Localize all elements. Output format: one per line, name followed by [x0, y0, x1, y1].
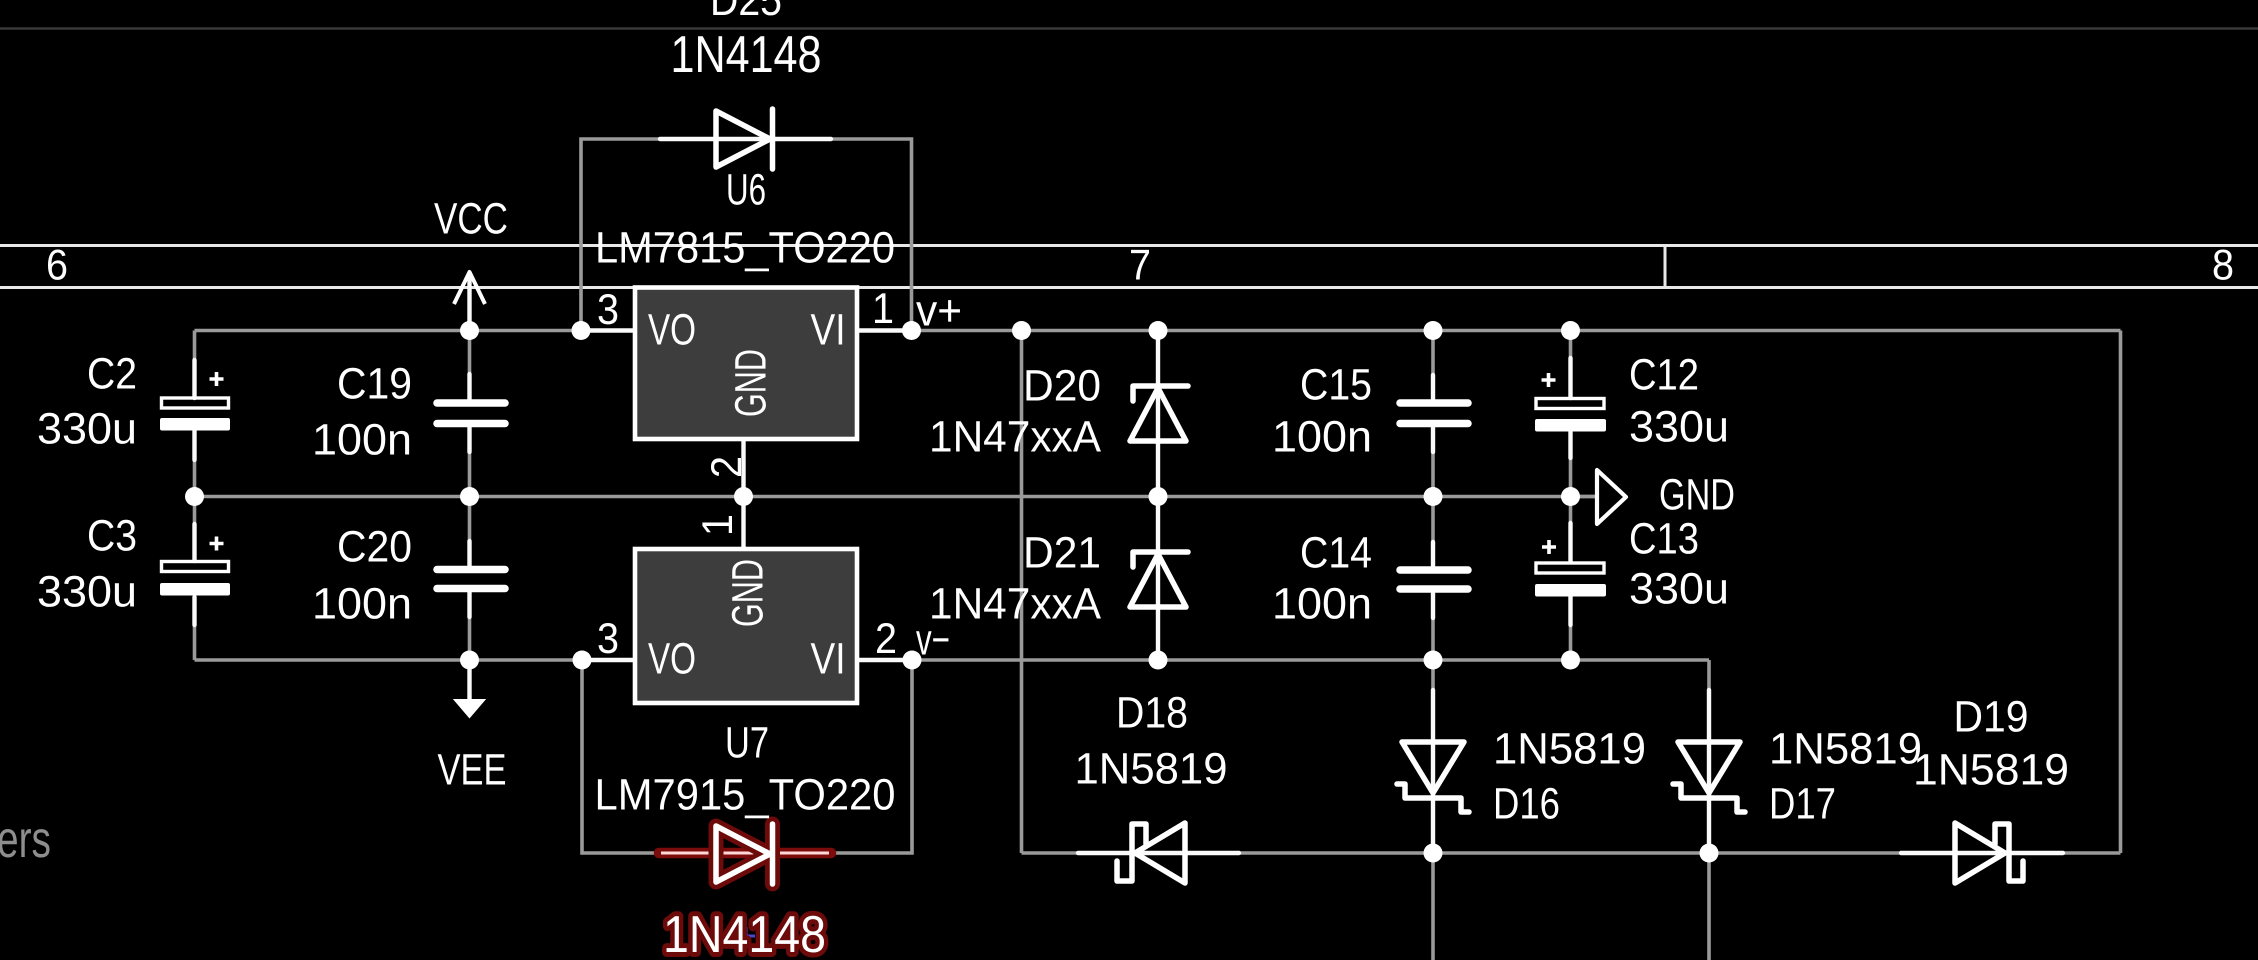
pin D21 cathode+anode — [1156, 497, 1160, 659]
svg-text:2: 2 — [875, 615, 897, 663]
svg-text:GND: GND — [724, 559, 773, 627]
svg-text:1N4148: 1N4148 — [671, 26, 822, 84]
svg-text:D16: D16 — [1493, 780, 1560, 829]
svg-text:VCC: VCC — [434, 195, 508, 244]
junction dot C12/C13 mid — [1561, 487, 1580, 506]
selected diode D24 1N4148 (red highlight) wire — [659, 848, 831, 859]
junction dot VEE — [460, 651, 479, 670]
svg-text:D25: D25 — [710, 0, 782, 25]
pin U7 pin2 VI — [857, 658, 912, 662]
wire C15/C14/D16 column (segment C15 to C14) — [1431, 423, 1435, 570]
pin C3 bottom — [192, 597, 196, 625]
svg-text:100n: 100n — [312, 416, 412, 465]
svg-text:VO: VO — [648, 306, 696, 355]
junction dot v+ U6 pin1 — [902, 321, 921, 340]
pin C12 bottom — [1568, 431, 1572, 458]
wire zener column D20/D21 — [1156, 331, 1160, 661]
schottky D16 1N5819 symbol — [1397, 742, 1469, 812]
pin D20 cathode+anode — [1156, 331, 1160, 496]
svg-text:C20: C20 — [337, 523, 412, 572]
wire D18 branch column — [1020, 331, 1024, 854]
pin C13 top — [1568, 523, 1572, 562]
pin C2 bottom — [192, 431, 196, 460]
svg-text:330u: 330u — [1629, 403, 1729, 452]
svg-text:D19: D19 — [1954, 693, 2029, 742]
svg-text:C2: C2 — [87, 350, 137, 399]
border strip top line — [0, 244, 2258, 247]
zener D21 1N47xxA symbol — [1130, 552, 1188, 607]
wire VO rail U7 bottom-left — [195, 658, 636, 662]
junction dot D17 bottom rail — [1700, 844, 1719, 863]
capacitor C14 100n symbol — [1400, 570, 1468, 589]
junction dot C14 bottom — [1424, 651, 1443, 670]
pin U6 pin2 GND — [741, 439, 745, 497]
svg-text:330u: 330u — [37, 568, 137, 617]
pin C3 top — [192, 524, 196, 561]
svg-text:C14: C14 — [1300, 529, 1372, 578]
svg-text:v+: v+ — [916, 287, 962, 336]
pin C20 bottom — [467, 592, 471, 617]
svg-text:LM7915_TO220: LM7915_TO220 — [595, 771, 896, 820]
capacitor C12 330u symbol — [1535, 373, 1606, 432]
junction dot D18 branch top — [1012, 321, 1031, 340]
svg-text:VO: VO — [648, 635, 696, 684]
svg-text:7: 7 — [1129, 242, 1151, 290]
pin C13 bottom — [1568, 596, 1572, 625]
wire left column C2/C3 (segment above C2) — [193, 331, 197, 400]
svg-text:D18: D18 — [1116, 689, 1188, 738]
pin C15 bottom — [1431, 427, 1435, 452]
wire v+ rail — [857, 329, 2121, 333]
wire C15/C14/D16 column (segment above C15) — [1431, 331, 1435, 404]
svg-text:100n: 100n — [312, 580, 412, 629]
power symbol VEE — [455, 660, 484, 717]
pin D16 anode+cathode — [1431, 690, 1435, 852]
selected diode anchor cross (blue) — [737, 927, 755, 945]
border strip bottom line — [0, 286, 2258, 289]
svg-text:D20: D20 — [1023, 362, 1101, 411]
svg-text:1: 1 — [694, 514, 742, 536]
pin C19 bottom — [467, 427, 471, 452]
junction dot C2/C3 mid — [185, 487, 204, 506]
svg-text:1N47xxA: 1N47xxA — [929, 580, 1102, 629]
zener D20 1N47xxA symbol — [1130, 386, 1188, 441]
junction dot C15 top — [1424, 321, 1443, 340]
regulator U6 LM7815_TO220 body — [635, 288, 857, 440]
svg-text:330u: 330u — [37, 405, 137, 454]
wire left column C2/C3 (segment C2 to C3) — [193, 430, 197, 562]
svg-text:3: 3 — [597, 286, 619, 334]
border column tick 7/8 — [1664, 246, 1667, 288]
wire left column C2/C3 (segment below C3) — [193, 595, 197, 660]
wire v- rail — [857, 658, 1709, 662]
junction dot C12 top — [1561, 321, 1580, 340]
svg-text:3: 3 — [597, 615, 619, 663]
pin C14 top — [1431, 542, 1435, 567]
svg-text:GND: GND — [1659, 471, 1735, 520]
svg-text:C19: C19 — [337, 360, 412, 409]
pin U7 pin1 GND — [741, 497, 745, 550]
svg-text:1: 1 — [872, 285, 894, 333]
junction dot D16 bottom rail — [1424, 844, 1443, 863]
svg-text:C13: C13 — [1629, 515, 1699, 564]
svg-text:VI: VI — [811, 306, 846, 355]
svg-text:VI: VI — [811, 635, 846, 684]
schottky D17 1N5819 symbol — [1673, 742, 1745, 812]
svg-text:1N5819: 1N5819 — [1075, 745, 1228, 794]
wire right edge return — [2119, 331, 2123, 854]
pin C20 top — [467, 541, 471, 566]
pin C12 top — [1568, 358, 1572, 398]
wire C12/C13 column (segment below C13) — [1569, 596, 1573, 660]
svg-text:8: 8 — [2212, 242, 2234, 290]
svg-text:1N5819: 1N5819 — [1493, 725, 1646, 774]
wire GND mid rail — [195, 495, 1598, 499]
pin U6 pin1 VI — [857, 328, 912, 332]
pin U7 pin3 VO — [582, 658, 635, 662]
schottky D18 1N5819 symbol — [1117, 823, 1185, 883]
schottky D19 1N5819 symbol — [1955, 823, 2023, 883]
junction dot VCC / top rail — [460, 321, 479, 340]
junction dot C19/C20 mid — [460, 487, 479, 506]
svg-text:6: 6 — [46, 242, 68, 290]
svg-text:C3: C3 — [87, 512, 137, 561]
capacitor C13 330u symbol — [1535, 540, 1606, 597]
wire VO rail U6 top-left — [195, 329, 636, 333]
wire U7 bypass loop — [582, 660, 912, 853]
power symbol GND — [1571, 470, 1627, 524]
svg-text:1N47xxA: 1N47xxA — [929, 413, 1102, 462]
svg-text:ers: ers — [0, 811, 51, 869]
wire D17 column — [1707, 660, 1711, 960]
svg-text:2: 2 — [703, 456, 751, 478]
svg-text:1N5819: 1N5819 — [1769, 725, 1922, 774]
wire VCC column C19/C20 (segment C19 to C20) — [468, 423, 472, 569]
svg-text:C15: C15 — [1300, 361, 1372, 410]
svg-text:U7: U7 — [725, 719, 769, 768]
sheet top edge line — [0, 27, 2258, 30]
pin D17 anode+cathode — [1707, 690, 1711, 852]
capacitor C15 100n symbol — [1400, 403, 1468, 424]
svg-text:GND: GND — [727, 349, 776, 417]
pin D19 anode+cathode — [1901, 851, 2063, 855]
wire bottom protection rail — [1022, 851, 2121, 855]
regulator U7 LM7915_TO220 body — [635, 549, 857, 703]
junction dot D20/D21 mid — [1149, 487, 1168, 506]
svg-text:C12: C12 — [1629, 351, 1699, 400]
pin C14 bottom — [1431, 593, 1435, 618]
wire VCC column C19/C20 (segment above C19) — [468, 331, 472, 404]
svg-text:330u: 330u — [1629, 565, 1729, 614]
svg-text:D21: D21 — [1023, 529, 1101, 578]
svg-text:1N4148: 1N4148 — [663, 906, 826, 960]
pin D18 cathode+anode — [1078, 851, 1239, 855]
junction dot U7 pin3 loop — [573, 651, 592, 670]
svg-text:U6: U6 — [726, 166, 766, 215]
wire U6 bypass loop — [581, 139, 912, 331]
wire C15/C14/D16 column (segment C14 down) — [1431, 589, 1435, 960]
junction dot C13 bottom — [1561, 651, 1580, 670]
svg-text:VEE: VEE — [438, 746, 507, 795]
power symbol VCC — [454, 272, 485, 330]
capacitor C2 330u symbol — [160, 372, 230, 431]
junction dot D21 bottom — [1149, 651, 1168, 670]
svg-text:100n: 100n — [1272, 413, 1372, 462]
pin C15 top — [1431, 375, 1435, 400]
junction dot U6 pin3 loop — [572, 321, 591, 340]
pin D25 anode+cathode — [660, 137, 831, 141]
svg-text:LM7815_TO220: LM7815_TO220 — [595, 224, 895, 273]
capacitor C3 330u symbol — [160, 537, 230, 596]
diode D25 1N4148 symbol — [716, 109, 773, 169]
svg-text:100n: 100n — [1272, 580, 1372, 629]
junction dot v- U7 pin2 — [903, 651, 922, 670]
selected diode D24 1N4148 (red highlight) symbol — [716, 824, 773, 884]
junction dot D20 top — [1149, 321, 1168, 340]
pin C19 top — [467, 374, 471, 400]
svg-text:D17: D17 — [1769, 780, 1836, 829]
wire C12/C13 column (segment C12 to C13) — [1569, 431, 1573, 563]
wire VCC column C19/C20 (segment below C20) — [468, 588, 472, 660]
pin U6 pin3 VO — [581, 328, 635, 332]
junction dot C15/C14 mid — [1424, 487, 1443, 506]
wire C12/C13 column (segment above C12) — [1569, 331, 1573, 400]
capacitor C19 100n symbol — [437, 403, 505, 424]
pin C2 top — [192, 360, 196, 398]
svg-text:1N5819: 1N5819 — [1913, 746, 2069, 795]
capacitor C20 100n symbol — [437, 570, 505, 589]
junction dot U6/U7 GND pins — [734, 487, 753, 506]
